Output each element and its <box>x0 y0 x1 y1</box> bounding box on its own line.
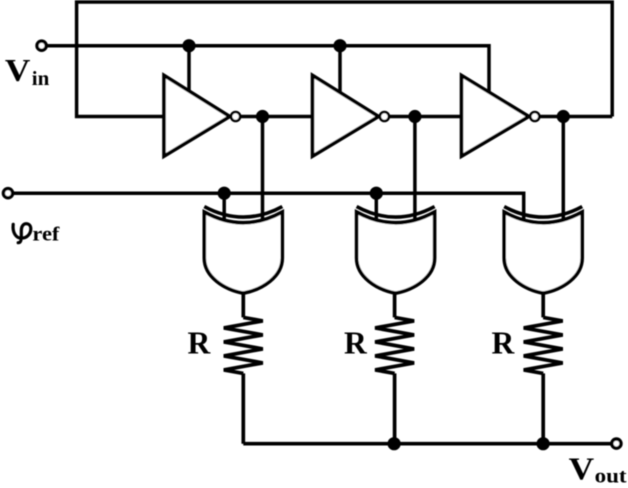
svg-text:ref: ref <box>32 223 60 245</box>
xor gate X3 <box>504 207 582 294</box>
wire node A drop to XOR1 <box>261 117 265 222</box>
svg-text:out: out <box>595 465 627 487</box>
junction dot node B <box>408 110 421 123</box>
wire R1 to output rail <box>241 373 245 443</box>
wire U2 output to U3 input <box>389 115 462 119</box>
resistor R3 <box>524 317 563 373</box>
junction dot Vin/U1 top <box>182 39 195 52</box>
inverter U2 <box>313 75 379 156</box>
inverter U1 <box>164 75 230 156</box>
wire node B drop to XOR2 <box>413 117 417 222</box>
wire XOR output to R3 <box>541 292 545 318</box>
wire R2 to output rail <box>393 373 397 443</box>
bubble U3 <box>530 112 539 121</box>
terminal Vout <box>612 439 621 448</box>
wire R3 to output rail <box>541 373 545 443</box>
wire feedback loop from inverter U3 output to inverter U1 input <box>77 2 613 117</box>
junction dot node C <box>557 110 570 123</box>
wire stub U1 top <box>187 46 191 92</box>
wire phi_ref rail <box>13 193 524 221</box>
svg-text:in: in <box>32 68 50 90</box>
bubble U2 <box>380 112 389 121</box>
svg-text:V: V <box>5 53 31 88</box>
terminal Vin <box>37 41 46 50</box>
svg-text:R: R <box>492 325 516 360</box>
svg-text:R: R <box>344 325 368 360</box>
wire XOR output to R2 <box>393 292 397 318</box>
xor gate X1 <box>204 207 282 294</box>
wire output rail <box>243 442 611 446</box>
svg-text:R: R <box>188 325 212 360</box>
junction dot rail/R2 <box>388 437 401 450</box>
wire stub XOR2 left input <box>375 193 379 221</box>
wire Vin supply rail <box>46 46 489 93</box>
xor gate X2 <box>357 207 435 294</box>
junction dot Vin/U2 top <box>333 39 346 52</box>
wire stub U2 top <box>338 46 342 93</box>
wire U3 output to feedback corner <box>539 115 612 119</box>
svg-text:V: V <box>569 451 595 486</box>
junction dot node A <box>256 110 269 123</box>
bubble U1 <box>231 112 240 121</box>
wire U1 output to U2 input <box>240 115 313 119</box>
wire node C drop to XOR3 <box>562 117 566 222</box>
resistor R2 <box>375 317 414 373</box>
junction dot rail/R3 <box>537 437 550 450</box>
inverter U3 <box>462 75 529 156</box>
junction dot phi/XOR2 <box>370 187 383 200</box>
junction dot phi/XOR1 <box>218 187 231 200</box>
label phi_ref (varphi drawn as path) <box>13 224 31 243</box>
resistor R1 <box>224 317 263 373</box>
wire XOR output to R1 <box>241 292 245 318</box>
wire stub XOR1 left input <box>222 193 226 221</box>
terminal phi_ref <box>3 189 12 198</box>
